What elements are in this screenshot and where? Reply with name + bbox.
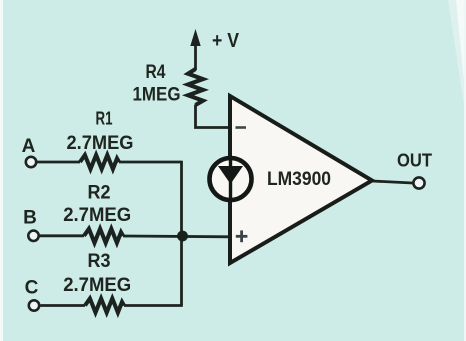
svg-text:+ V: + V xyxy=(212,30,240,52)
svg-text:2.7MEG: 2.7MEG xyxy=(63,205,131,226)
svg-text:2.7MEG: 2.7MEG xyxy=(63,275,131,296)
svg-text:2.7MEG: 2.7MEG xyxy=(67,133,134,154)
svg-text:A: A xyxy=(22,136,36,157)
svg-text:B: B xyxy=(23,208,37,229)
svg-text:LM3900: LM3900 xyxy=(267,168,331,190)
svg-text:R2: R2 xyxy=(88,182,111,203)
svg-text:R3: R3 xyxy=(88,251,111,272)
svg-text:1MEG: 1MEG xyxy=(133,85,181,106)
svg-text:C: C xyxy=(25,278,39,299)
svg-text:R1: R1 xyxy=(96,108,113,129)
svg-text:OUT: OUT xyxy=(397,151,432,171)
svg-text:R4: R4 xyxy=(146,62,166,83)
